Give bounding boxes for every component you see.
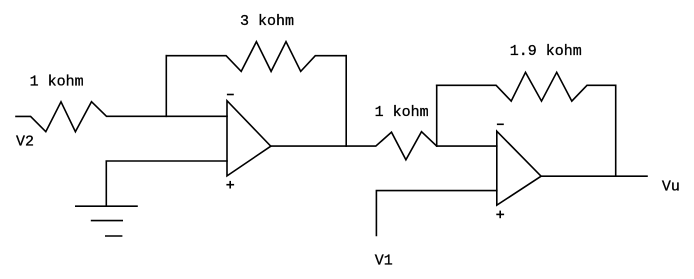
svg-text:Vu: Vu bbox=[662, 179, 680, 196]
svg-text:1 kohm: 1 kohm bbox=[375, 104, 429, 121]
svg-text:1.9 kohm: 1.9 kohm bbox=[510, 43, 582, 60]
svg-text:V2: V2 bbox=[16, 133, 34, 150]
svg-text:V1: V1 bbox=[375, 253, 393, 270]
svg-text:3 kohm: 3 kohm bbox=[240, 13, 294, 30]
svg-text:1 kohm: 1 kohm bbox=[30, 74, 84, 91]
